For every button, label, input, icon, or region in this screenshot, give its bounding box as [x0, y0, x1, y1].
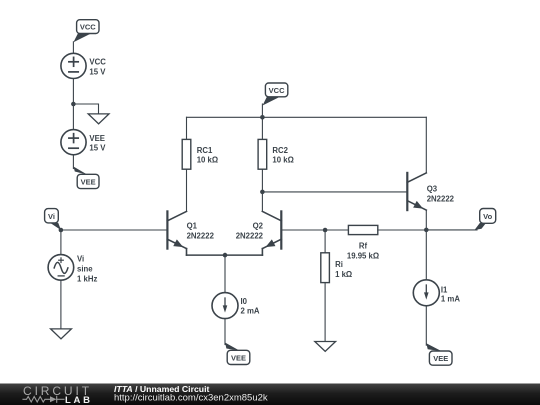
net flag Vi [45, 209, 61, 231]
svg-text:1 mA: 1 mA [441, 295, 460, 304]
wire VCC flag to V1 [72, 42, 74, 53]
svg-text:Rf: Rf [359, 241, 368, 250]
CircuitLab logo resistor squiggle [23, 396, 64, 402]
svg-text:1 kHz: 1 kHz [77, 274, 97, 283]
wire rail down to RC1 [186, 117, 188, 139]
net flag Vo [475, 209, 496, 231]
svg-text:RC1: RC1 [197, 146, 213, 155]
wire Rf right to output node [378, 229, 427, 231]
wire V2 to VEE flag [72, 155, 74, 169]
transistor Q1 2N2222 [167, 211, 214, 255]
ground (supply midpoint) [88, 114, 109, 124]
wire RC2 node to Q3 base [262, 191, 407, 193]
svg-text:VEE: VEE [231, 354, 246, 363]
wire junction to ground [73, 104, 98, 114]
svg-text:VEE: VEE [433, 354, 448, 363]
svg-text:15 V: 15 V [89, 144, 106, 153]
junction output node [424, 228, 429, 233]
wire I0 to VEE flag [224, 319, 226, 345]
wire I0 from emitters [224, 255, 226, 293]
svg-text:Vi: Vi [77, 254, 84, 263]
junction node between supplies [71, 102, 76, 107]
wire Vi node to Q1 base [61, 229, 167, 231]
svg-text:2N2222: 2N2222 [236, 231, 264, 240]
svg-text:Ri: Ri [335, 260, 343, 269]
wire rail down to RC2 [261, 117, 263, 139]
resistor RC2 10k [258, 139, 294, 169]
junction feedback node [323, 228, 328, 233]
net flag VCC (rail) [263, 83, 288, 106]
wire VCC flag to rail [261, 104, 263, 117]
svg-text:19.95 kΩ: 19.95 kΩ [347, 251, 379, 260]
voltage source V2 VEE 15V [61, 130, 106, 155]
svg-text:Vi: Vi [48, 212, 55, 221]
wire I1 to VEE flag [425, 306, 427, 345]
svg-text:LAB: LAB [65, 395, 93, 405]
junction emitters/I0 [223, 253, 228, 258]
svg-text:VCC: VCC [80, 23, 96, 32]
wire rail down to Q3 collector [425, 117, 427, 173]
wire RC2 to Q2 collector [261, 169, 263, 211]
svg-text:10 kΩ: 10 kΩ [197, 156, 218, 165]
svg-text:RC2: RC2 [272, 146, 288, 155]
svg-text:I1: I1 [441, 285, 448, 294]
wire feedback node down to Ri [324, 230, 326, 253]
svg-text:sine: sine [77, 264, 93, 273]
voltage source Vi sine 1kHz [48, 254, 97, 283]
svg-text:VCC: VCC [269, 86, 285, 95]
net flag VEE (I0) [225, 343, 250, 365]
wire Ri to ground [324, 283, 326, 342]
svg-text:10 kΩ: 10 kΩ [272, 156, 293, 165]
transistor Q3 2N2222 [407, 173, 454, 210]
wire output node to Vo flag [426, 229, 477, 231]
resistor RC1 10k [182, 139, 218, 169]
svg-text:2N2222: 2N2222 [427, 194, 455, 203]
resistor Rf 19.95k [347, 225, 379, 260]
ground (Ri) [315, 342, 336, 352]
wire V1 to V2 [72, 79, 74, 130]
svg-text:2 mA: 2 mA [241, 307, 260, 316]
footer bar [0, 384, 540, 405]
svg-text:Vo: Vo [483, 212, 492, 221]
svg-text:VCC: VCC [89, 58, 106, 67]
wire output node down to I1 [425, 230, 427, 280]
svg-text:http://circuitlab.com/cx3en2xm: http://circuitlab.com/cx3en2xm85u2k [114, 393, 268, 404]
junction RC2/Q3 base [260, 190, 265, 195]
svg-text:Q2: Q2 [253, 222, 264, 231]
wire top rail [187, 116, 427, 118]
ground (Vi) [51, 329, 72, 339]
wire Vi node down to source [60, 230, 62, 255]
net flag VEE (I1) [426, 343, 452, 365]
wire Vi source to ground [60, 280, 62, 329]
junction Vi node [59, 228, 64, 233]
wire Q2 base to feedback node [281, 229, 348, 231]
wire common emitters [187, 254, 263, 256]
svg-text:2N2222: 2N2222 [187, 231, 215, 240]
transistor Q2 2N2222 (mirrored) [236, 211, 282, 255]
net flag VEE (left supply) [73, 167, 99, 189]
svg-text:Q3: Q3 [427, 185, 438, 194]
svg-text:15 V: 15 V [89, 67, 106, 76]
junction rail/VCC [260, 115, 265, 120]
svg-text:1 kΩ: 1 kΩ [335, 270, 352, 279]
svg-text:VEE: VEE [81, 177, 96, 186]
current source I0 2mA [212, 293, 260, 319]
svg-text:Q1: Q1 [187, 222, 198, 231]
resistor Ri 1k [321, 253, 352, 283]
net flag VCC (left supply) [73, 20, 99, 43]
wire Q3 emitter to output node [425, 210, 427, 230]
svg-text:I0: I0 [241, 297, 248, 306]
voltage source V1 VCC 15V [61, 53, 106, 78]
current source I1 1mA [413, 280, 460, 306]
svg-text:VEE: VEE [89, 134, 105, 143]
wire RC1 to Q1 collector [186, 169, 188, 211]
